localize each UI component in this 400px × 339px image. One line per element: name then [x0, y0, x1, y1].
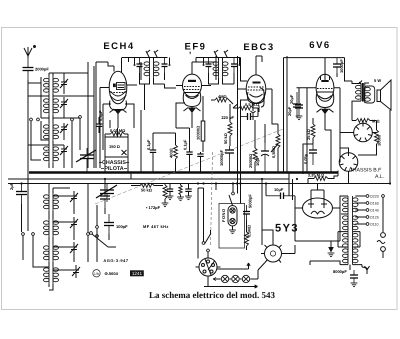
- tube EBC3 leads: [238, 56, 272, 120]
- svg-text:PILOTA: PILOTA: [104, 166, 123, 172]
- RF coil T4: [44, 145, 59, 168]
- transformer primary/secondary windings: [343, 196, 359, 265]
- svg-text:AGG-3-947: AGG-3-947: [103, 258, 128, 263]
- wires tuner verticals: [28, 62, 94, 168]
- wires socket C: [198, 188, 258, 287]
- speaker horn: [377, 80, 391, 110]
- transformer taps: [355, 195, 369, 226]
- svg-text:FONO: FONO: [221, 208, 226, 222]
- osc coil O4: [44, 262, 59, 287]
- wires socket D: [258, 230, 295, 279]
- caps column mid: [100, 188, 110, 208]
- svg-text:1000pF: 1000pF: [339, 59, 344, 73]
- resistor 400ohm: [169, 133, 178, 172]
- antenna capacitor 2000pF: [23, 58, 34, 80]
- tuning gang capacitor 2: [96, 184, 117, 203]
- switch contacts row upper: [30, 116, 82, 121]
- small res 2 below rail: [177, 184, 184, 201]
- tube 5Y3 leads: [295, 184, 340, 209]
- svg-text:20μF: 20μF: [289, 94, 294, 104]
- wires T1: [28, 73, 64, 94]
- svg-text:5 W: 5 W: [374, 78, 381, 83]
- tube 5Y3: [303, 198, 333, 218]
- ground 8000pF: [351, 283, 358, 287]
- wire left of ECH4: [96, 58, 129, 169]
- svg-text:10000pF: 10000pF: [219, 149, 224, 166]
- socket D: [261, 242, 285, 263]
- svg-text:Ω140: Ω140: [370, 209, 379, 213]
- tube ECH4 leads: [100, 58, 137, 129]
- svg-text:,: ,: [189, 46, 191, 55]
- svg-text:1241: 1241: [132, 271, 143, 276]
- wires under ECH4: [105, 62, 145, 172]
- socket B: [339, 153, 358, 172]
- cap 10uF electrolytic: [255, 143, 269, 172]
- cap 20uF vertical: [287, 92, 301, 118]
- arrow up mid: [247, 263, 250, 266]
- svg-text:4MΩ: 4MΩ: [218, 94, 227, 99]
- resistor 0,5M fono: [245, 220, 252, 250]
- resistor 50k vertical EBC3: [223, 108, 232, 146]
- wires psu left: [262, 179, 340, 247]
- wires 6V6 top: [284, 58, 353, 172]
- svg-text:La schema elettrico del mod. 5: La schema elettrico del mod. 543: [149, 290, 275, 300]
- svg-text:5000pF: 5000pF: [248, 194, 253, 208]
- tube EF9: [183, 74, 202, 115]
- arrow right bottom: [255, 285, 258, 288]
- cap 5000pF EF9 third: [197, 152, 203, 172]
- dashed coupling line: [95, 129, 283, 204]
- cap 20uF cathode: [289, 94, 303, 116]
- svg-text:0,5MΩ: 0,5MΩ: [247, 225, 252, 237]
- text CHASSIS BF AL: [349, 168, 384, 181]
- resistor 0,5M horizontal: [233, 102, 259, 110]
- chassis bus thick: [29, 171, 338, 174]
- wires EBC3 area: [211, 56, 313, 204]
- svg-text:50 kΩ: 50 kΩ: [141, 188, 153, 193]
- svg-text:EF9: EF9: [185, 42, 207, 53]
- svg-text:25000Ω: 25000Ω: [248, 154, 253, 168]
- trimmer O3: [70, 242, 78, 255]
- capacitor 220pF horizontal: [240, 113, 258, 120]
- cap 0,05uF vertical: [303, 144, 317, 165]
- antenna: [24, 46, 36, 59]
- svg-text:MF 467 kHz: MF 467 kHz: [143, 224, 169, 229]
- svg-text:10000Ω: 10000Ω: [196, 126, 201, 140]
- box 150 ohm: [105, 137, 128, 157]
- switch contacts row lower: [22, 226, 99, 236]
- wires transformer: [310, 196, 362, 270]
- svg-text:Ω220: Ω220: [370, 195, 379, 199]
- svg-text:150 Ω: 150 Ω: [109, 144, 120, 149]
- tap labels: [370, 195, 379, 227]
- cap 0,1uF EF9 right: [183, 128, 193, 172]
- cap 10uF psu: [266, 193, 295, 200]
- ground fono: [232, 226, 234, 230]
- resistor 50k horizontal: [131, 184, 163, 193]
- wires EF9 bottom: [153, 56, 216, 152]
- badge 1241: [130, 270, 144, 276]
- small res vertical below rail: [162, 184, 169, 207]
- wires osc block: [22, 183, 98, 290]
- tube 6V6: [316, 74, 334, 116]
- resistor 0,01M horizontal: [105, 128, 128, 136]
- trimmer cap T2: [60, 97, 68, 110]
- tuning gang capacitor 1: [76, 148, 96, 172]
- osc coil O3: [44, 239, 59, 267]
- svg-text:0,1μF: 0,1μF: [183, 139, 188, 150]
- osc coil O1: [44, 188, 59, 216]
- svg-text:CHASSIS B.F: CHASSIS B.F: [349, 168, 381, 174]
- cap 5000pF fono: [243, 194, 253, 220]
- svg-text:8000pF: 8000pF: [333, 269, 347, 274]
- IF transformer 1: [134, 50, 171, 80]
- trimmer O1: [70, 191, 78, 204]
- tube EF9 leads: [176, 62, 211, 128]
- svg-text:ECH4: ECH4: [103, 41, 134, 52]
- resistor 25k vertical: [306, 118, 315, 144]
- tube ECH4: [109, 71, 127, 117]
- tube 6V6 leads: [297, 58, 341, 130]
- svg-text:220 pF: 220 pF: [221, 115, 234, 120]
- wires IF2: [209, 58, 248, 85]
- small cap 2 below rail: [185, 184, 192, 200]
- svg-text:U b: U b: [94, 272, 99, 276]
- Y fork symbol: [365, 266, 370, 274]
- cap 8000pF: [350, 270, 358, 283]
- cap 100pF: [104, 214, 114, 234]
- svg-text:50 kΩ: 50 kΩ: [223, 133, 228, 144]
- resistor 25000 ohm: [248, 120, 257, 172]
- wires IF1 to EF9: [140, 73, 177, 88]
- rail y183.5: [8, 183, 390, 185]
- fono jack: [228, 206, 237, 227]
- svg-text:Ω160: Ω160: [370, 202, 379, 206]
- wire mid verticals below bus: [105, 173, 216, 241]
- trimmer cap T3: [60, 123, 68, 134]
- svg-text:0,5μF: 0,5μF: [98, 110, 103, 121]
- IF transformer 2: [203, 50, 241, 80]
- svg-text:0,1μF: 0,1μF: [146, 139, 151, 150]
- svg-text:A.L.: A.L.: [375, 174, 384, 180]
- cap 10000pF vertical: [219, 146, 234, 172]
- svg-text:6V6: 6V6: [309, 40, 330, 51]
- wires right sockets: [339, 88, 376, 184]
- svg-text:20μF: 20μF: [287, 106, 292, 116]
- trimmer cap T1: [60, 77, 68, 90]
- resistor 10000 right: [375, 121, 382, 151]
- svg-text:10μF: 10μF: [255, 156, 260, 166]
- wires right mid corners: [289, 144, 313, 200]
- wire to plug: [362, 267, 367, 268]
- osc coil O2: [44, 214, 59, 242]
- tube EBC3: [246, 75, 266, 113]
- selector circles right: [377, 195, 385, 258]
- resistor 4M small: [215, 94, 229, 102]
- wire 6V6 bottom: [325, 130, 331, 172]
- wire antenna down: [27, 80, 29, 231]
- small cap below rail: [167, 184, 174, 200]
- cap 0,1uF EF9 left: [146, 133, 156, 172]
- svg-text:Ω125: Ω125: [370, 216, 379, 220]
- resistor 0,5M vertical: [271, 124, 280, 172]
- dial lamps: [221, 275, 249, 282]
- svg-text:Ω110: Ω110: [370, 223, 379, 227]
- trimmer O4: [72, 265, 80, 278]
- svg-text:0,5 M.Ω: 0,5 M.Ω: [245, 102, 259, 107]
- rail y179: [8, 178, 289, 180]
- trimmer cap T4: [60, 145, 68, 156]
- resistor 3,35M: [308, 171, 338, 181]
- rail junction dots: [20, 171, 391, 184]
- lamp wires with arrows: [213, 277, 258, 280]
- svg-text:400Ω: 400Ω: [169, 148, 174, 158]
- resistor 10000 ohm EF9: [196, 96, 205, 146]
- switch lever bottom mid: [90, 232, 116, 247]
- svg-text:100pF: 100pF: [116, 224, 128, 229]
- cap 8000-level psu with ground: [328, 247, 334, 253]
- svg-text:3,35 M.Ω: 3,35 M.Ω: [308, 173, 324, 178]
- output transformer: [356, 83, 375, 103]
- RF coil T3: [44, 118, 59, 145]
- switch above fono: [229, 184, 234, 206]
- wires speaker: [352, 81, 390, 185]
- cap 0,5uF below ECH4 left: [96, 110, 103, 133]
- RF coil T1: [44, 73, 59, 99]
- switch above socket C: [202, 234, 210, 255]
- socket C: [196, 255, 221, 281]
- trimmer O2: [70, 217, 78, 230]
- svg-text:10μF: 10μF: [274, 187, 284, 192]
- svg-text:2000pF: 2000pF: [35, 67, 49, 72]
- wire top rail ECH4: [96, 58, 241, 67]
- volume pot arrow: [271, 144, 278, 152]
- socket A: [354, 123, 373, 142]
- capacitor 2uF left: [16, 183, 27, 204]
- cap 1000pF 6V6: [333, 58, 344, 73]
- phono box: [219, 204, 245, 249]
- dashed linkage vertical: [211, 152, 213, 247]
- logo Ub circle: [93, 270, 100, 277]
- svg-text:• 172pF: • 172pF: [146, 205, 161, 210]
- svg-text:Φ.5604: Φ.5604: [105, 271, 119, 276]
- svg-text:EBC3: EBC3: [243, 42, 274, 53]
- text CHASSIS PILOTA: [99, 160, 129, 172]
- RF coil T2: [44, 94, 59, 118]
- resistor M-ohm top: [352, 119, 380, 124]
- svg-text:10000: 10000: [377, 134, 382, 146]
